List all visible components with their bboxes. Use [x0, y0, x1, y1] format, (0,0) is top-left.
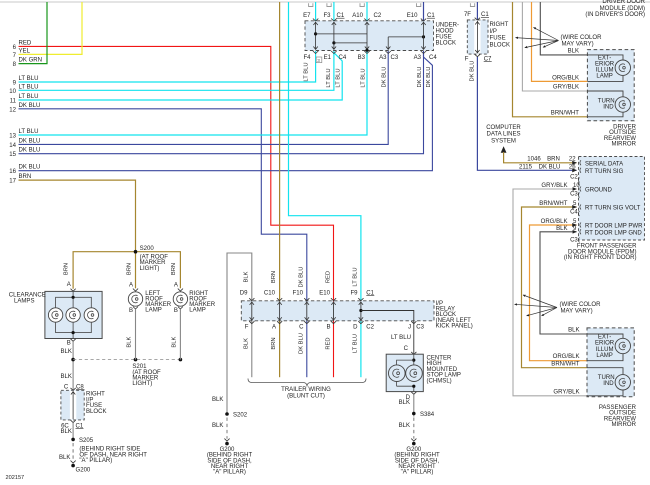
wire stub LT BLU to E7 [315, 2, 317, 21]
pin arrow E7 top [313, 19, 318, 21]
svg-text:GRY/BLK: GRY/BLK [541, 183, 567, 189]
pin arrow F bottom [475, 54, 480, 56]
svg-text:C3: C3 [391, 55, 399, 61]
pin arrow bottom lower fuse block [71, 420, 76, 423]
svg-text:1046: 1046 [527, 156, 541, 162]
svg-text:RED: RED [325, 271, 331, 283]
svg-text:MIRROR: MIRROR [611, 422, 636, 428]
wire BRN 1046 serial data with up arrow [501, 146, 507, 153]
svg-text:LAMPS: LAMPS [14, 298, 35, 304]
svg-text:YEL: YEL [19, 48, 31, 54]
wire row13 LT BLU horizontal [19, 51, 368, 135]
svg-text:10: 10 [573, 183, 580, 189]
internal wiring exterior illum driver [587, 55, 623, 60]
wire stub DK BLU to 7F/C1 [476, 2, 478, 20]
connector bracket E10 stub [417, 3, 421, 6]
svg-text:BLK: BLK [568, 328, 579, 334]
svg-text:BRN: BRN [63, 263, 69, 275]
pin SERIAL DATA [580, 160, 581, 165]
internal wire A3 riser [387, 37, 389, 50]
svg-text:IND: IND [603, 104, 614, 110]
wire BLK right roof lamp [179, 309, 181, 360]
svg-text:7F: 7F [464, 12, 471, 18]
pin arrow E10 top [421, 19, 426, 21]
svg-text:DK BLU: DK BLU [470, 61, 476, 82]
svg-text:LAMP: LAMP [596, 74, 612, 80]
pin RT DOOR LMP GND [580, 229, 581, 234]
wire row11 LT BLU horizontal [19, 52, 343, 101]
wire row14 DK BLU horizontal [19, 51, 389, 144]
svg-text:F4: F4 [303, 55, 311, 61]
svg-text:LAMP: LAMP [189, 308, 205, 314]
svg-text:S205: S205 [79, 438, 94, 444]
pin GROUND [580, 187, 581, 192]
svg-text:BRN: BRN [271, 337, 277, 349]
svg-text:B: B [129, 308, 133, 314]
svg-text:ORG/BLK: ORG/BLK [541, 219, 568, 225]
clearance lamps box [45, 291, 102, 338]
wire stub LT BLU to F3/C1 [333, 2, 335, 21]
svg-text:F: F [245, 324, 249, 330]
svg-text:EXT-: EXT- [598, 55, 611, 61]
svg-text:(WIRE COLOR: (WIRE COLOR [560, 302, 602, 308]
wire GRY/BLK driver mirror [522, 2, 587, 91]
svg-text:ERIOR: ERIOR [595, 61, 615, 67]
svg-text:B3: B3 [358, 55, 366, 61]
svg-text:BLK: BLK [399, 423, 410, 429]
svg-text:13: 13 [9, 134, 16, 140]
svg-text:E10: E10 [407, 13, 418, 19]
svg-text:16: 16 [9, 169, 16, 175]
lamp exterior illum passenger [615, 338, 630, 353]
svg-text:GROUND: GROUND [585, 187, 613, 193]
svg-text:LT BLU: LT BLU [19, 129, 39, 135]
svg-text:DK GRN: DK GRN [19, 58, 43, 64]
pin arrow F4 bottom [313, 51, 318, 54]
svg-text:C3: C3 [416, 324, 424, 330]
svg-text:22: 22 [569, 156, 576, 162]
wire BLK dashed to ground [413, 418, 415, 439]
svg-text:ERIOR: ERIOR [595, 341, 615, 347]
svg-text:C: C [64, 384, 69, 390]
pin arrows bottom edge of band [249, 321, 254, 324]
svg-text:B: B [67, 341, 71, 347]
svg-text:LAMP: LAMP [145, 308, 161, 314]
internal junction dot F3 column [332, 41, 335, 44]
connector bracket 7F stub [470, 3, 474, 6]
svg-text:SERIAL DATA: SERIAL DATA [585, 161, 624, 167]
pin arrow right roof lamp top [178, 289, 183, 292]
pin arrow E1 bottom [331, 51, 336, 54]
svg-text:BLK: BLK [172, 336, 178, 347]
svg-text:RED: RED [325, 337, 331, 349]
clearance lamps inner wiring [56, 297, 92, 332]
wire row16 DK BLU horizontal [19, 52, 433, 171]
svg-text:DK BLU: DK BLU [19, 138, 41, 144]
wire BLK below lower fuse block [72, 423, 74, 438]
connector bracket E7 stub [309, 3, 313, 6]
annotation arrows to driver mirror wires [516, 38, 559, 41]
wire stub DK BLU to E10/C1 [423, 2, 425, 21]
svg-text:BRN: BRN [171, 263, 177, 275]
svg-text:26: 26 [569, 165, 576, 171]
right IP fuse block dashed border [467, 20, 488, 54]
wire DK BLU 2115 to FPDM [477, 57, 576, 170]
svg-text:EXT-: EXT- [598, 335, 611, 341]
svg-text:(IN DRIVER'S DOOR): (IN DRIVER'S DOOR) [585, 12, 645, 18]
svg-text:DATA LINES: DATA LINES [486, 132, 520, 138]
svg-text:D9: D9 [240, 290, 248, 296]
lamp right roof marker [173, 292, 187, 306]
wire RED trailer through band [333, 299, 335, 377]
driver outside rearview mirror box [587, 50, 634, 121]
internal wire E7-F4 [315, 22, 317, 50]
svg-text:G200: G200 [76, 468, 91, 474]
FPDM box [579, 157, 645, 241]
wire row15 DK BLU horizontal [19, 51, 424, 154]
svg-text:DK BLU: DK BLU [19, 148, 41, 154]
svg-text:BLOCK: BLOCK [86, 409, 107, 415]
svg-text:BLK: BLK [556, 226, 567, 232]
wire BLK from relay block D9 up over to S202 ground run [227, 253, 252, 414]
svg-text:(BLUNT CUT): (BLUNT CUT) [287, 393, 325, 399]
wire ORG/BLK to passenger mirror [530, 225, 588, 361]
pin arrow left roof lamp bottom [133, 307, 138, 310]
lamp turn indicator driver [615, 97, 630, 112]
svg-text:B: B [326, 324, 330, 330]
splice S202 [225, 412, 229, 416]
ground G200 s202 [225, 442, 229, 446]
passenger outside rearview mirror box [587, 328, 634, 397]
svg-text:BLK: BLK [244, 338, 250, 349]
svg-text:DK BLU: DK BLU [19, 103, 41, 109]
svg-text:15: 15 [9, 152, 16, 158]
svg-text:BRN/WHT: BRN/WHT [539, 201, 568, 207]
svg-text:(CHMSL): (CHMSL) [427, 378, 452, 384]
svg-text:MODULE (DDM): MODULE (DDM) [600, 6, 645, 12]
svg-text:17: 17 [9, 179, 16, 185]
svg-text:MIRROR: MIRROR [611, 141, 636, 147]
internal wire horizontal F3 to A10 column [334, 42, 367, 44]
wire BLK trailer through band [251, 299, 253, 377]
svg-text:RT TURN SIG: RT TURN SIG [585, 169, 624, 175]
svg-text:DK BLU: DK BLU [299, 267, 305, 288]
svg-text:DK BLU: DK BLU [382, 67, 388, 88]
svg-text:LT BLU: LT BLU [304, 62, 310, 81]
svg-text:I/P: I/P [490, 29, 497, 35]
internal wire to J pin [361, 311, 414, 321]
svg-text:KICK PANEL): KICK PANEL) [436, 324, 473, 330]
svg-text:BRN: BRN [126, 263, 132, 275]
lamp exterior illum driver [615, 60, 630, 75]
svg-text:12: 12 [9, 107, 16, 113]
svg-text:COMPUTER: COMPUTER [486, 125, 521, 131]
wire row17 BRN horizontal to S200 [19, 180, 136, 252]
svg-text:ILLUM: ILLUM [596, 347, 614, 353]
svg-text:F9: F9 [350, 290, 358, 296]
wire BRN/WHT driver mirror [513, 2, 588, 117]
internal junction dot B3 pin [365, 49, 368, 52]
svg-text:(WIRE COLOR: (WIRE COLOR [561, 35, 603, 41]
svg-text:F3: F3 [323, 13, 331, 19]
band interior mask [242, 301, 433, 320]
svg-text:MAY VARY): MAY VARY) [561, 309, 593, 315]
svg-text:BRN: BRN [19, 174, 32, 180]
internal wire F3-E1 [333, 22, 335, 50]
svg-text:BLK: BLK [61, 374, 72, 380]
internal wire horizontal E7 to A10 column [316, 33, 367, 35]
svg-text:A3: A3 [414, 55, 422, 61]
svg-text:ILLUM: ILLUM [596, 68, 614, 74]
lamp clearance middle [66, 308, 80, 322]
svg-text:MAY VARY): MAY VARY) [562, 41, 594, 47]
lamp chmsl right [406, 365, 423, 382]
svg-text:BLK: BLK [212, 423, 223, 429]
wire row6 RED horizontal [19, 46, 334, 299]
internal junction dot E7 column [314, 32, 317, 35]
svg-text:LIGHT): LIGHT) [132, 381, 152, 387]
svg-text:D: D [353, 324, 358, 330]
svg-text:RED: RED [19, 40, 32, 46]
pin arrow D chmsl [411, 392, 416, 395]
internal wiring turn indicator passenger [587, 368, 623, 375]
svg-text:LT BLU: LT BLU [391, 335, 411, 341]
pin arrow A3 right bottom [421, 51, 426, 54]
wire BLK to passenger mirror [540, 232, 587, 334]
svg-text:C2: C2 [374, 13, 382, 19]
pin arrow 7F top [475, 18, 480, 20]
svg-text:BRN: BRN [271, 271, 277, 283]
svg-text:202157: 202157 [6, 475, 25, 481]
internal junction dot E10 column [422, 35, 425, 38]
wire BRN S200 branches [73, 252, 180, 289]
connector bracket A10 stub [360, 3, 364, 6]
svg-text:TRAILER WIRING: TRAILER WIRING [281, 387, 331, 393]
svg-text:ORG/BLK: ORG/BLK [553, 354, 580, 360]
ground G200 chmsl [412, 442, 416, 446]
wire GRY/BLK ground to passenger mirror [513, 189, 587, 396]
svg-text:BLK: BLK [212, 397, 223, 403]
wire DK BLU trailer through band [306, 299, 308, 377]
svg-text:"A" PILLAR): "A" PILLAR) [401, 470, 434, 476]
wire BLK dashed to G200 s202 [226, 418, 228, 439]
CHMSL box [386, 354, 423, 391]
svg-text:ORG/BLK: ORG/BLK [552, 76, 579, 82]
svg-text:E1: E1 [324, 55, 332, 61]
svg-text:FUSE: FUSE [490, 36, 506, 42]
svg-text:BRN/WHT: BRN/WHT [551, 362, 580, 368]
svg-text:BRN: BRN [547, 156, 560, 162]
svg-text:LT BLU: LT BLU [353, 267, 359, 286]
svg-text:F: F [465, 57, 469, 63]
lamp turn indicator passenger [615, 375, 630, 390]
svg-text:S200: S200 [140, 246, 155, 252]
svg-text:GRY/BLK: GRY/BLK [553, 389, 579, 395]
svg-text:DRIVER DOOR: DRIVER DOOR [602, 0, 645, 5]
splice S384 [412, 412, 416, 416]
internal wire E10-A3 [423, 22, 425, 50]
svg-text:C10: C10 [264, 290, 276, 296]
pin arrow right roof lamp bottom [178, 307, 183, 310]
svg-text:LT BLU: LT BLU [326, 68, 332, 87]
page top border line [0, 1, 650, 3]
junction dot LT BLU in band [359, 309, 362, 312]
svg-text:2115: 2115 [519, 165, 533, 171]
svg-text:LT BLU: LT BLU [19, 94, 39, 100]
svg-text:A10: A10 [352, 13, 363, 19]
lamp left roof marker [128, 292, 142, 306]
svg-text:LT BLU: LT BLU [19, 76, 39, 82]
wire row8 DK GRN horizontal [19, 2, 48, 64]
svg-text:BLK: BLK [61, 429, 72, 435]
connector bracket F3 stub [327, 3, 331, 6]
wire LT BLU trailer through band [360, 299, 362, 301]
svg-text:C4: C4 [429, 55, 437, 61]
wire BRN trailer through band [279, 299, 281, 377]
svg-text:GRY/BLK: GRY/BLK [553, 85, 579, 91]
svg-text:C3: C3 [570, 191, 578, 197]
IP relay block band fill [241, 301, 434, 321]
svg-text:DK BLU: DK BLU [417, 67, 423, 88]
svg-text:C4: C4 [570, 209, 578, 215]
svg-text:10: 10 [9, 89, 16, 95]
wire row12 DK BLU horizontal to trailer [19, 109, 307, 299]
IP relay block dashed border [241, 301, 434, 321]
svg-text:DK BLU: DK BLU [19, 165, 41, 171]
wire row7 YEL horizontal [19, 2, 83, 54]
underhood fuse block fill [305, 21, 434, 51]
svg-text:S202: S202 [233, 412, 248, 418]
svg-text:DK BLU: DK BLU [299, 333, 305, 354]
svg-text:E7: E7 [303, 13, 311, 19]
wire BRN/WHT to passenger mirror [522, 207, 588, 368]
svg-text:BLK: BLK [568, 48, 579, 54]
svg-text:C3: C3 [570, 237, 578, 243]
wire BLK driver mirror [540, 2, 587, 55]
wire BLK dashed to G200 s205 [72, 443, 74, 461]
CHMSL internal wiring [413, 354, 415, 365]
svg-text:C2: C2 [366, 324, 374, 330]
lamp clearance right [84, 308, 98, 322]
wire LT BLU main from top edge to relay block [289, 2, 361, 299]
internal wiring exterior illum passenger [587, 334, 623, 338]
wire BLK clearance down [72, 341, 74, 390]
svg-text:BLK: BLK [399, 400, 410, 406]
fuse C3 box symbol [316, 57, 322, 63]
svg-text:F10: F10 [293, 290, 304, 296]
svg-text:J: J [408, 324, 411, 330]
svg-text:RT TURN SIG VOLT: RT TURN SIG VOLT [585, 205, 641, 211]
pin arrow A3 bottom [386, 51, 391, 54]
svg-text:BRN/WHT: BRN/WHT [551, 111, 580, 117]
right IP fuse block fill [467, 20, 488, 54]
underhood fuse block dashed border [305, 21, 434, 51]
wire BRN trailer vertical from top edge [279, 2, 281, 299]
svg-text:LT BLU: LT BLU [336, 68, 342, 87]
pin arrow C top lower fuse block [71, 388, 76, 391]
svg-text:BLOCK: BLOCK [490, 42, 511, 48]
svg-text:A3: A3 [379, 55, 387, 61]
svg-text:3: 3 [317, 58, 320, 63]
annotation arrows to passenger mirror wires [515, 304, 558, 307]
svg-text:LT BLU: LT BLU [361, 68, 367, 87]
svg-text:BLK: BLK [59, 455, 70, 461]
splice S201 dashed tie [71, 358, 75, 362]
svg-text:RT DOOR LMP GND: RT DOOR LMP GND [585, 230, 642, 236]
pin arrow left roof lamp top [133, 289, 138, 292]
wire BLK chmsl ground [413, 394, 415, 416]
pin arrow A10 top [364, 19, 369, 21]
pin RT TURN SIG [580, 168, 581, 173]
svg-text:TURN: TURN [598, 98, 615, 104]
svg-text:(IN RIGHT FRONT DOOR): (IN RIGHT FRONT DOOR) [564, 255, 637, 261]
svg-text:14: 14 [9, 143, 16, 149]
svg-text:B: B [174, 308, 178, 314]
svg-text:BLK: BLK [127, 336, 133, 347]
svg-text:C: C [299, 324, 304, 330]
pin RT DOOR LMP PWR [580, 223, 581, 228]
internal wire A10-B3 [366, 22, 368, 50]
trailer wiring brace [248, 379, 366, 387]
svg-text:RIGHT: RIGHT [490, 22, 509, 28]
splice S205 [71, 438, 75, 442]
svg-text:LAMP: LAMP [596, 353, 612, 359]
svg-text:DK BLU: DK BLU [539, 165, 561, 171]
svg-text:LT BLU: LT BLU [19, 84, 39, 90]
svg-text:S384: S384 [420, 412, 435, 418]
internal wiring turn indicator driver [587, 91, 623, 97]
svg-text:11: 11 [10, 99, 17, 105]
wire ORG/BLK driver mirror [532, 2, 588, 81]
internal wire horizontal A3 to E10 column [388, 36, 423, 38]
svg-text:C2: C2 [570, 175, 578, 181]
lamp chmsl left [389, 365, 406, 382]
svg-text:"A" PILLAR): "A" PILLAR) [79, 458, 112, 464]
black in-band conductors with arrows [251, 302, 253, 321]
wire row10 LT BLU horizontal [19, 51, 334, 90]
lower right IP fuse block [61, 390, 84, 420]
pin arrow B3 bottom [364, 51, 369, 54]
svg-text:LT BLU: LT BLU [353, 334, 359, 353]
wire BLK left roof lamp [135, 309, 137, 360]
svg-text:BLOCK: BLOCK [436, 41, 457, 47]
svg-text:SYSTEM: SYSTEM [491, 138, 516, 144]
svg-text:IND: IND [603, 381, 614, 387]
pin RT TURN SIG VOLT [580, 205, 581, 210]
wire to CHMSL C pin [413, 321, 415, 354]
wire row9 LT BLU horizontal [19, 51, 316, 82]
pin arrow C chmsl [411, 352, 416, 355]
pin arrow B clearance [71, 339, 76, 342]
lamp clearance left [48, 308, 62, 322]
svg-text:RT DOOR LMP PWR: RT DOOR LMP PWR [585, 223, 643, 229]
pin arrows top edge of band [249, 298, 254, 301]
internal wire lower fuse block [72, 391, 74, 419]
ground G200 s205 [71, 464, 75, 468]
internal wire through right IP fuse block [476, 21, 478, 53]
svg-text:DK BLU: DK BLU [426, 67, 432, 88]
splice S200 [134, 250, 138, 254]
pin arrow F3 top [331, 19, 336, 21]
svg-text:BLK: BLK [244, 271, 250, 282]
svg-text:"A" PILLAR): "A" PILLAR) [213, 470, 246, 476]
svg-text:BLK: BLK [61, 349, 72, 355]
svg-text:LIGHT): LIGHT) [140, 266, 160, 272]
pin arrow A clearance [71, 289, 76, 292]
svg-text:E10: E10 [319, 290, 330, 296]
wire stub LT BLU to A10/C2 [366, 2, 368, 21]
svg-text:C4: C4 [339, 55, 347, 61]
